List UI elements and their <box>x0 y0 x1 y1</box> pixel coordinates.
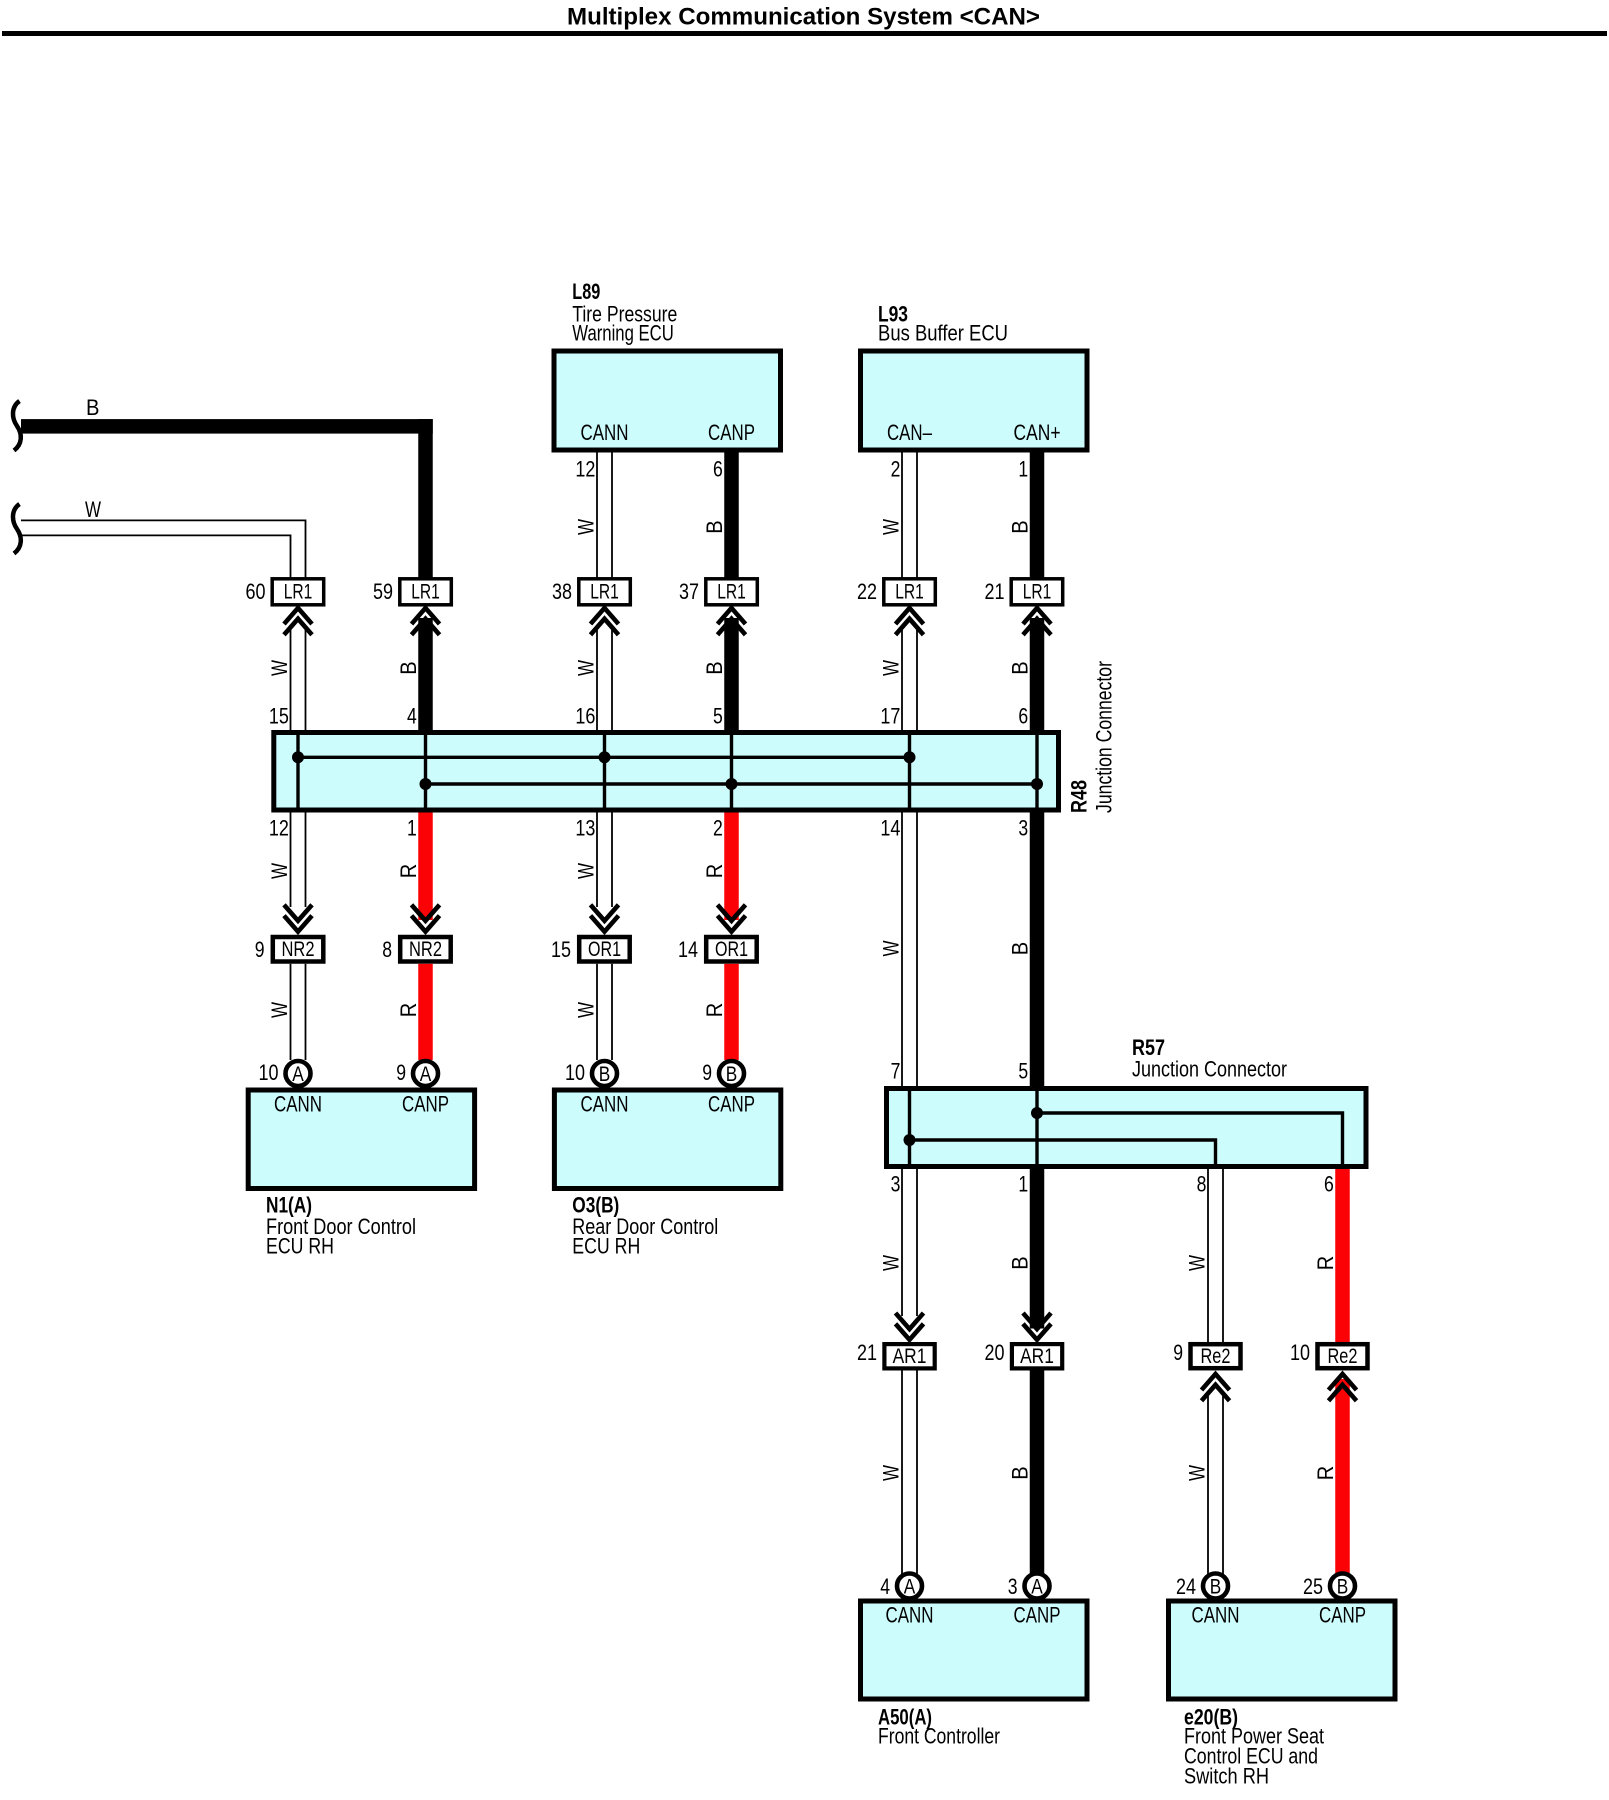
ECU e20(B) Front Power Seat Control ECU and Switch RH (box) <box>1169 1601 1396 1699</box>
junction node R48 upper bus at pin 15/12 <box>292 751 304 763</box>
connector LR1 pin 37 <box>706 579 758 605</box>
svg-text:12: 12 <box>575 457 595 482</box>
svg-text:W: W <box>267 863 292 879</box>
svg-text:1: 1 <box>407 816 417 841</box>
wire R from NR2 pin 8 to N1 terminal 9 <box>418 964 433 1060</box>
wire W from AR1 pin 21 to A50 terminal 4 <box>902 1371 917 1575</box>
connector NR2 pin 8 <box>400 937 451 962</box>
wire W from R48 pin 13 to OR1 pin 15 <box>597 813 612 908</box>
svg-text:Warning ECU: Warning ECU <box>572 321 674 346</box>
pass-through arrows below LR1 pin 22 <box>896 608 924 635</box>
R57 internal bus CANN (lower) from pin 7 to pin 8 <box>910 1140 1216 1164</box>
connector AR1 pin 21 <box>884 1344 934 1368</box>
wire W from LR1 pin 22 to R48 pin 17 <box>902 628 917 730</box>
wire B from AR1 pin 20 to A50 terminal 3 <box>1030 1371 1045 1575</box>
svg-text:A: A <box>292 1062 304 1086</box>
internal pin line 5 inside R48 <box>908 735 911 808</box>
svg-text:1: 1 <box>1018 457 1028 482</box>
pass-through arrows below LR1 pin 59 <box>412 608 440 635</box>
wire B from R57 pin 1 to AR1 pin 20 <box>1030 1169 1045 1329</box>
junction node R48 upper bus at pin 16/13 <box>599 751 611 763</box>
pass-through arrows above OR1 pin 14 <box>718 905 746 932</box>
svg-text:CANP: CANP <box>708 420 755 445</box>
svg-text:9: 9 <box>1173 1340 1183 1365</box>
svg-text:12: 12 <box>269 816 289 841</box>
junction node R48 upper bus at pin 17/14 <box>904 751 916 763</box>
terminal circle A at N1 pin 10 <box>286 1061 311 1086</box>
wire R from OR1 pin 14 to O3 terminal 9 <box>724 964 739 1060</box>
svg-text:CAN–: CAN– <box>887 420 933 445</box>
terminal circle A at A50 pin 4 <box>897 1574 922 1599</box>
R48 internal bus CANP (lower) <box>426 782 1038 785</box>
wire B from L89 pin 6 to LR1 pin 37 <box>724 453 739 579</box>
wire B from LR1 pin 59 to R48 pin 4 <box>418 618 433 730</box>
svg-text:13: 13 <box>575 816 595 841</box>
svg-text:4: 4 <box>407 704 417 729</box>
R57 internal bus CANP (upper) from pin 5 to pin 6 <box>1037 1113 1343 1164</box>
pass-through arrows below LR1 pin 37 <box>718 608 746 635</box>
svg-text:38: 38 <box>552 579 572 604</box>
svg-text:OR1: OR1 <box>715 937 748 961</box>
svg-text:Switch RH: Switch RH <box>1184 1764 1269 1789</box>
svg-text:R: R <box>1313 1256 1338 1271</box>
svg-text:W: W <box>267 1002 292 1018</box>
svg-text:R: R <box>702 1003 727 1018</box>
svg-text:OR1: OR1 <box>588 937 621 961</box>
svg-text:CANN: CANN <box>274 1092 322 1117</box>
svg-text:3: 3 <box>891 1172 901 1197</box>
svg-text:R: R <box>1313 1466 1338 1481</box>
svg-text:A: A <box>420 1062 432 1086</box>
junction node R57 lower bus at pin 7 <box>904 1134 916 1146</box>
svg-text:CANN: CANN <box>581 420 629 445</box>
junction connector R57 (box) <box>887 1089 1367 1167</box>
svg-text:5: 5 <box>1018 1059 1028 1084</box>
connector Re2 pin 10 <box>1318 1344 1368 1368</box>
svg-text:W: W <box>879 940 904 956</box>
svg-text:W: W <box>1185 1465 1210 1481</box>
wire R from R48 pin 1 to NR2 pin 8 <box>418 813 433 921</box>
wire B from R48 pin 3 to R57 pin 5 <box>1030 813 1045 1087</box>
connector LR1 pin 38 <box>579 579 631 605</box>
junction node R48 lower bus at pin 4/1 <box>420 778 432 790</box>
terminal circle B at O3 pin 10 <box>592 1061 617 1086</box>
ECU N1(A) Front Door Control ECU RH (box) <box>248 1090 474 1189</box>
svg-text:Junction Connector: Junction Connector <box>1132 1057 1287 1082</box>
internal pin line 6 inside R48 <box>1035 735 1038 808</box>
wire R from R57 pin 6 to Re2 pin 10 <box>1335 1169 1350 1342</box>
svg-text:9: 9 <box>396 1060 406 1085</box>
svg-text:15: 15 <box>551 937 571 962</box>
svg-text:A: A <box>1031 1574 1043 1598</box>
svg-text:Front Controller: Front Controller <box>878 1724 1000 1749</box>
svg-text:CANP: CANP <box>402 1092 449 1117</box>
ECU L93 Bus Buffer ECU (box) <box>861 351 1088 450</box>
junction node R57 upper bus at pin 5 <box>1031 1107 1043 1119</box>
svg-text:20: 20 <box>985 1340 1005 1365</box>
svg-text:10: 10 <box>565 1060 585 1085</box>
svg-text:W: W <box>574 863 599 879</box>
wire R from Re2 pin 10 to e20 terminal 25 <box>1335 1379 1350 1574</box>
svg-text:B: B <box>86 395 100 420</box>
svg-text:W: W <box>574 1002 599 1018</box>
wire W from L89 pin 12 to LR1 pin 38 <box>597 453 612 579</box>
svg-text:W: W <box>574 660 599 676</box>
wire W from Re2 pin 9 to e20 terminal 24 <box>1208 1396 1223 1574</box>
svg-text:17: 17 <box>880 704 900 729</box>
svg-text:CANN: CANN <box>1192 1603 1240 1628</box>
pass-through arrows below LR1 pin 21 <box>1023 608 1051 635</box>
terminal circle A at N1 pin 9 <box>413 1061 438 1086</box>
svg-text:B: B <box>1008 942 1033 956</box>
connector LR1 pin 60 <box>272 579 324 605</box>
svg-text:R: R <box>396 864 421 879</box>
svg-text:7: 7 <box>891 1059 901 1084</box>
svg-text:24: 24 <box>1176 1574 1196 1599</box>
internal pin line 7-3 inside R57 <box>908 1091 911 1164</box>
svg-text:ECU RH: ECU RH <box>266 1234 334 1259</box>
wire W from LR1 pin 38 to R48 pin 16 <box>597 628 612 730</box>
ECU L89 Tire Pressure Warning ECU (box) <box>554 351 781 450</box>
svg-text:9: 9 <box>702 1060 712 1085</box>
R48 internal bus CANN (upper) <box>298 756 910 759</box>
svg-text:B: B <box>1008 520 1033 534</box>
terminal circle A at A50 pin 3 <box>1025 1574 1050 1599</box>
wire W from OR1 pin 15 to O3 terminal 10 <box>597 964 612 1060</box>
wire R from R48 pin 2 to OR1 pin 14 <box>724 813 739 921</box>
break symbol on wire W (left edge) <box>13 504 21 554</box>
svg-text:LR1: LR1 <box>1023 580 1052 604</box>
connector LR1 pin 59 <box>400 579 452 605</box>
svg-text:ECU RH: ECU RH <box>572 1234 640 1259</box>
svg-text:Bus Buffer ECU: Bus Buffer ECU <box>878 321 1008 346</box>
wire B from L93 pin 1 to LR1 pin 21 <box>1030 453 1045 579</box>
svg-text:W: W <box>879 660 904 676</box>
svg-text:W: W <box>1185 1255 1210 1271</box>
svg-text:NR2: NR2 <box>282 937 315 961</box>
connector OR1 pin 15 <box>579 937 630 962</box>
svg-text:10: 10 <box>1290 1340 1310 1365</box>
svg-text:10: 10 <box>259 1060 279 1085</box>
svg-text:3: 3 <box>1018 816 1028 841</box>
svg-text:5: 5 <box>713 704 723 729</box>
svg-text:CAN+: CAN+ <box>1014 420 1061 445</box>
svg-text:1: 1 <box>1018 1172 1028 1197</box>
wire W from R48 pin 14 to R57 pin 7 <box>902 813 917 1087</box>
svg-text:4: 4 <box>880 1574 890 1599</box>
wire W horizontal (hollow) from page edge to column c1 <box>21 520 306 578</box>
svg-text:R: R <box>396 1003 421 1018</box>
junction node R48 lower bus at pin 5/2 <box>726 778 738 790</box>
svg-text:AR1: AR1 <box>893 1344 927 1368</box>
pass-through arrows below LR1 pin 60 <box>284 608 312 635</box>
svg-text:CANN: CANN <box>886 1603 934 1628</box>
junction node R48 lower bus at pin 6/3 <box>1031 778 1043 790</box>
wire B from LR1 pin 21 to R48 pin 6 <box>1030 618 1045 730</box>
svg-text:25: 25 <box>1303 1574 1323 1599</box>
connector AR1 pin 20 <box>1012 1344 1062 1368</box>
svg-text:W: W <box>879 519 904 535</box>
svg-text:CANP: CANP <box>708 1092 755 1117</box>
wire W from NR2 pin 9 to N1 terminal 10 <box>291 964 306 1060</box>
svg-text:B: B <box>1337 1574 1349 1598</box>
svg-text:B: B <box>396 661 421 675</box>
internal pin line 5-1 inside R57 <box>1035 1091 1038 1164</box>
connector OR1 pin 14 <box>706 937 757 962</box>
pass-through arrows above NR2 pin 9 <box>284 905 312 932</box>
wire B from LR1 pin 37 to R48 pin 5 <box>724 618 739 730</box>
svg-text:Multiplex Communication System: Multiplex Communication System <CAN> <box>567 4 1040 31</box>
svg-text:2: 2 <box>891 457 901 482</box>
svg-text:B: B <box>599 1062 611 1086</box>
connector LR1 pin 21 <box>1011 579 1062 605</box>
svg-text:CANP: CANP <box>1014 1603 1061 1628</box>
svg-text:LR1: LR1 <box>717 580 746 604</box>
svg-text:9: 9 <box>255 937 265 962</box>
pass-through arrows above OR1 pin 15 <box>591 905 619 932</box>
svg-text:W: W <box>267 660 292 676</box>
connector LR1 pin 22 <box>884 579 936 605</box>
svg-text:14: 14 <box>880 816 900 841</box>
internal pin line 3 inside R48 <box>603 735 606 808</box>
svg-text:B: B <box>1210 1574 1222 1598</box>
svg-text:B: B <box>726 1062 738 1086</box>
svg-text:W: W <box>85 497 101 522</box>
svg-text:Junction Connector: Junction Connector <box>1092 661 1117 813</box>
svg-text:B: B <box>702 520 727 534</box>
internal pin line 2 inside R48 <box>424 735 427 808</box>
svg-text:21: 21 <box>985 579 1005 604</box>
ECU O3(B) Rear Door Control ECU RH (box) <box>554 1090 780 1189</box>
svg-text:B: B <box>702 661 727 675</box>
svg-text:A: A <box>904 1574 916 1598</box>
svg-text:14: 14 <box>678 937 698 962</box>
svg-text:6: 6 <box>713 457 723 482</box>
svg-text:CANP: CANP <box>1319 1603 1366 1628</box>
title rule <box>2 31 1607 36</box>
svg-text:LR1: LR1 <box>284 580 313 604</box>
wire W from L93 pin 2 to LR1 pin 22 <box>902 453 917 579</box>
svg-text:NR2: NR2 <box>409 937 442 961</box>
pass-through arrows below Re2 pin 9 <box>1202 1374 1230 1401</box>
svg-text:W: W <box>574 519 599 535</box>
break symbol on wire B (left edge) <box>13 401 21 451</box>
svg-text:59: 59 <box>373 579 393 604</box>
pass-through arrows below LR1 pin 38 <box>591 608 619 635</box>
internal pin line 1 inside R48 <box>296 735 299 808</box>
svg-text:B: B <box>1008 661 1033 675</box>
svg-text:W: W <box>879 1465 904 1481</box>
wire W from R57 pin 3 to AR1 pin 21 <box>902 1169 917 1316</box>
svg-text:AR1: AR1 <box>1020 1344 1054 1368</box>
ECU A50(A) Front Controller (box) <box>861 1601 1088 1699</box>
svg-text:LR1: LR1 <box>895 580 924 604</box>
svg-text:8: 8 <box>382 937 392 962</box>
svg-text:LR1: LR1 <box>411 580 440 604</box>
pass-through arrows above AR1 pin 20 <box>1023 1313 1051 1340</box>
terminal circle B at O3 pin 9 <box>719 1061 744 1086</box>
svg-text:B: B <box>1008 1256 1033 1270</box>
connector Re2 pin 9 <box>1191 1344 1241 1368</box>
svg-text:6: 6 <box>1018 704 1028 729</box>
svg-text:Re2: Re2 <box>1328 1344 1358 1368</box>
junction connector R48 (box) <box>274 733 1059 811</box>
svg-text:B: B <box>1008 1466 1033 1480</box>
connector NR2 pin 9 <box>273 937 324 962</box>
wire B horizontal from page edge to column c2 <box>21 419 433 434</box>
svg-text:16: 16 <box>575 704 595 729</box>
pass-through arrows above NR2 pin 8 <box>412 905 440 932</box>
svg-text:Re2: Re2 <box>1201 1344 1231 1368</box>
svg-text:37: 37 <box>679 579 699 604</box>
svg-text:LR1: LR1 <box>590 580 619 604</box>
svg-text:L89: L89 <box>572 279 600 304</box>
svg-text:R: R <box>702 864 727 879</box>
wire W from LR1 pin 60 to R48 pin 15 <box>291 628 306 730</box>
pass-through arrows above AR1 pin 21 <box>896 1313 924 1340</box>
wire W from R48 pin 12 to NR2 pin 9 <box>291 813 306 908</box>
svg-text:60: 60 <box>246 579 266 604</box>
wire B vertical segment down to connector LR1 pin 59 <box>418 419 433 578</box>
svg-text:CANN: CANN <box>581 1092 629 1117</box>
svg-text:21: 21 <box>857 1340 877 1365</box>
svg-text:6: 6 <box>1324 1172 1334 1197</box>
svg-text:8: 8 <box>1197 1172 1207 1197</box>
terminal circle B at e20 pin 24 <box>1203 1574 1228 1599</box>
wire W from R57 pin 8 to Re2 pin 9 <box>1208 1169 1223 1342</box>
pass-through arrows below Re2 pin 10 <box>1329 1374 1357 1401</box>
svg-text:2: 2 <box>713 816 723 841</box>
svg-text:W: W <box>879 1255 904 1271</box>
svg-text:3: 3 <box>1008 1574 1018 1599</box>
internal pin line 4 inside R48 <box>730 735 733 808</box>
terminal circle B at e20 pin 25 <box>1330 1574 1355 1599</box>
svg-text:R48: R48 <box>1067 780 1092 813</box>
svg-text:15: 15 <box>269 704 289 729</box>
svg-text:22: 22 <box>857 579 877 604</box>
